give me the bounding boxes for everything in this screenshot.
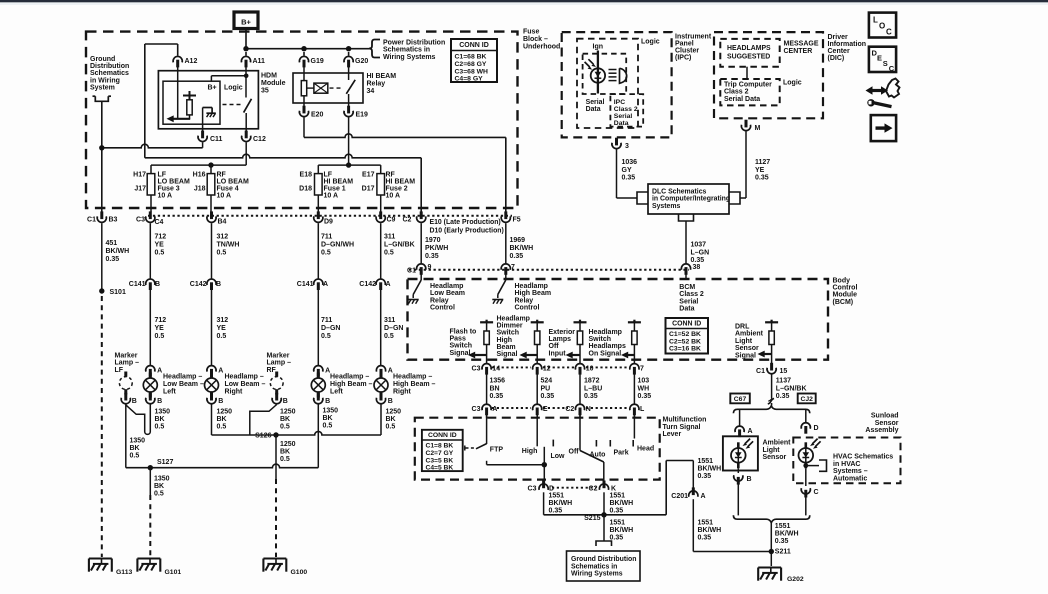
svg-text:0.5: 0.5 [321, 333, 331, 340]
svg-text:1137: 1137 [776, 378, 791, 385]
svg-text:Schematics: Schematics [90, 70, 129, 77]
svg-text:C3: C3 [472, 366, 481, 373]
svg-text:Light: Light [735, 338, 753, 345]
svg-text:Sunload: Sunload [871, 413, 899, 420]
svg-text:Head: Head [637, 446, 654, 453]
svg-text:Park: Park [614, 450, 629, 457]
svg-text:YE: YE [755, 167, 765, 174]
svg-text:Lever: Lever [663, 431, 682, 438]
svg-text:YE: YE [217, 325, 227, 332]
svg-text:0.35: 0.35 [549, 507, 563, 514]
svg-text:Headlamp –: Headlamp – [225, 374, 264, 381]
svg-text:D18: D18 [299, 186, 312, 193]
svg-text:A: A [748, 428, 753, 435]
svg-text:G202: G202 [787, 576, 804, 583]
svg-text:B: B [132, 398, 137, 405]
svg-text:HI BEAM: HI BEAM [367, 73, 397, 80]
svg-text:B+: B+ [208, 85, 217, 92]
svg-text:GY: GY [622, 167, 632, 174]
svg-text:Systems: Systems [652, 203, 681, 210]
svg-text:Serial Data: Serial Data [724, 96, 760, 103]
svg-text:Switch: Switch [497, 330, 520, 337]
svg-text:0.5: 0.5 [217, 333, 227, 340]
svg-text:C4=8 GY: C4=8 GY [455, 76, 484, 83]
svg-text:1350: 1350 [155, 409, 171, 416]
svg-text:Headlamp –: Headlamp – [163, 374, 202, 381]
svg-text:C9: C9 [387, 217, 396, 224]
svg-text:A: A [492, 406, 497, 413]
svg-text:C2=52 BK: C2=52 BK [669, 338, 701, 345]
svg-text:B: B [388, 398, 393, 405]
svg-text:S127: S127 [157, 459, 173, 466]
svg-text:CJ2: CJ2 [800, 396, 813, 403]
svg-text:1036: 1036 [622, 159, 638, 166]
svg-text:Right: Right [225, 388, 244, 395]
svg-text:J17: J17 [134, 186, 146, 193]
svg-text:Class 2: Class 2 [614, 106, 638, 113]
svg-text:451: 451 [106, 240, 118, 247]
svg-text:Dimmer: Dimmer [497, 323, 523, 330]
svg-text:Sensor: Sensor [763, 454, 787, 461]
svg-text:0.5: 0.5 [384, 333, 394, 340]
svg-text:Off: Off [549, 343, 560, 350]
svg-text:M: M [755, 125, 761, 132]
svg-text:Information: Information [828, 41, 867, 48]
svg-text:SUGGESTED: SUGGESTED [727, 54, 770, 61]
svg-text:C3=5 BK: C3=5 BK [426, 457, 454, 464]
svg-text:0.35: 0.35 [775, 538, 789, 545]
svg-text:Left: Left [163, 388, 177, 395]
svg-text:C141: C141 [129, 281, 146, 288]
svg-text:A: A [218, 367, 223, 374]
svg-text:1250: 1250 [217, 409, 233, 416]
svg-text:E17: E17 [362, 172, 375, 179]
svg-text:A11: A11 [253, 58, 266, 65]
svg-text:BK: BK [154, 483, 164, 490]
svg-text:1969: 1969 [510, 237, 526, 244]
svg-text:C4: C4 [155, 219, 164, 226]
svg-text:Logic: Logic [224, 85, 243, 92]
svg-text:Relay: Relay [367, 80, 386, 87]
svg-text:Beam: Beam [497, 344, 516, 351]
svg-text:0.35: 0.35 [698, 473, 712, 480]
svg-text:0.5: 0.5 [386, 424, 396, 431]
svg-text:Lamps: Lamps [549, 336, 572, 343]
svg-text:DLC Schematics: DLC Schematics [652, 189, 707, 196]
svg-text:IPC: IPC [614, 99, 625, 106]
svg-text:B: B [218, 398, 223, 405]
svg-text:Lamp –: Lamp – [267, 360, 292, 367]
svg-text:Wiring Systems: Wiring Systems [571, 571, 623, 578]
svg-text:C142: C142 [359, 281, 376, 288]
svg-text:Headlamp –: Headlamp – [393, 374, 432, 381]
svg-text:WH: WH [638, 385, 650, 392]
svg-text:0.35: 0.35 [622, 175, 636, 182]
svg-text:Assembly: Assembly [865, 427, 898, 434]
svg-text:3: 3 [625, 143, 629, 150]
svg-text:0.5: 0.5 [321, 250, 331, 257]
svg-text:L: L [640, 406, 645, 413]
svg-text:Ambient: Ambient [763, 440, 792, 447]
svg-text:Data: Data [614, 120, 629, 127]
svg-text:High: High [522, 448, 538, 455]
svg-text:Marker: Marker [115, 353, 138, 360]
svg-text:C1=68 BK: C1=68 BK [455, 54, 487, 61]
svg-text:DRL: DRL [735, 324, 750, 331]
svg-text:BK/WH: BK/WH [698, 466, 722, 473]
svg-text:A: A [157, 367, 162, 374]
svg-text:0.5: 0.5 [154, 491, 164, 498]
svg-text:711: 711 [321, 234, 332, 241]
svg-text:311: 311 [384, 317, 395, 324]
svg-text:1551: 1551 [610, 520, 626, 527]
svg-text:CONN ID: CONN ID [459, 42, 489, 49]
svg-text:Relay: Relay [515, 297, 534, 304]
svg-text:1350: 1350 [154, 476, 170, 483]
svg-text:Data: Data [679, 306, 694, 313]
svg-text:Marker: Marker [267, 353, 290, 360]
svg-text:E10 (Late Production): E10 (Late Production) [430, 219, 501, 226]
svg-text:CONN ID: CONN ID [672, 321, 701, 328]
svg-text:1350: 1350 [323, 408, 339, 415]
svg-text:K: K [611, 486, 616, 493]
svg-text:S101: S101 [110, 289, 126, 296]
svg-text:C3=16 BK: C3=16 BK [669, 346, 701, 353]
svg-text:RF: RF [386, 172, 396, 179]
svg-text:Turn Signal: Turn Signal [663, 424, 701, 431]
svg-text:Class 2: Class 2 [724, 89, 749, 96]
svg-text:Ambient: Ambient [735, 331, 764, 338]
svg-text:1551: 1551 [698, 458, 714, 465]
svg-text:CENTER: CENTER [784, 48, 813, 55]
svg-text:711: 711 [321, 317, 332, 324]
svg-text:10 A: 10 A [386, 193, 401, 200]
svg-text:H17: H17 [133, 172, 146, 179]
svg-text:D–GN: D–GN [384, 325, 403, 332]
svg-text:C: C [814, 489, 819, 496]
svg-text:Lamp –: Lamp – [115, 360, 140, 367]
svg-text:PU: PU [541, 385, 551, 392]
svg-text:C2: C2 [565, 406, 574, 413]
svg-text:Data: Data [586, 106, 601, 113]
svg-text:Headlamp: Headlamp [515, 283, 548, 290]
svg-text:B: B [157, 398, 162, 405]
svg-text:in Computer/Integrating: in Computer/Integrating [652, 196, 730, 203]
svg-text:0.35: 0.35 [638, 393, 652, 400]
svg-text:Class 2: Class 2 [679, 291, 704, 298]
svg-text:S: S [883, 59, 888, 68]
svg-text:BK: BK [155, 416, 165, 423]
svg-text:D9: D9 [324, 219, 333, 226]
svg-text:1551: 1551 [698, 520, 714, 527]
svg-text:L–BU: L–BU [584, 385, 602, 392]
svg-text:1350: 1350 [130, 438, 146, 445]
svg-text:BK/WH: BK/WH [698, 527, 722, 534]
svg-text:0.5: 0.5 [155, 424, 165, 431]
svg-text:G113: G113 [116, 569, 132, 576]
svg-text:LF: LF [324, 172, 333, 179]
svg-text:312: 312 [217, 317, 229, 324]
svg-text:Multifunction: Multifunction [663, 417, 707, 424]
svg-text:1127: 1127 [755, 159, 770, 166]
svg-text:1356: 1356 [490, 378, 506, 385]
svg-text:10 A: 10 A [158, 193, 173, 200]
svg-text:Headlamps: Headlamps [589, 343, 626, 350]
svg-text:Body: Body [833, 278, 851, 285]
svg-text:Schematics in: Schematics in [383, 47, 430, 54]
svg-text:HEADLAMPS: HEADLAMPS [727, 45, 771, 52]
svg-text:1970: 1970 [425, 237, 441, 244]
svg-text:Module: Module [261, 80, 286, 87]
svg-text:H16: H16 [193, 172, 206, 179]
svg-text:L–GN: L–GN [691, 249, 710, 256]
svg-text:BK/WH: BK/WH [549, 500, 573, 507]
svg-text:0.35: 0.35 [490, 393, 504, 400]
svg-text:Auto: Auto [590, 452, 606, 459]
svg-text:BK/WH: BK/WH [510, 245, 534, 252]
svg-text:Instrument: Instrument [675, 34, 712, 41]
svg-text:Serial: Serial [586, 99, 605, 106]
svg-text:G100: G100 [291, 569, 308, 576]
svg-text:Low Beam –: Low Beam – [163, 381, 204, 388]
svg-text:B3: B3 [109, 217, 118, 224]
svg-text:1250: 1250 [280, 409, 296, 416]
svg-text:Power Distribution: Power Distribution [383, 40, 445, 47]
svg-text:Fuse 2: Fuse 2 [386, 186, 408, 193]
svg-text:G101: G101 [165, 569, 182, 576]
svg-text:BK/WH: BK/WH [610, 500, 634, 507]
svg-text:Fuse 3: Fuse 3 [158, 186, 180, 193]
svg-text:High: High [497, 337, 513, 344]
svg-text:0.5: 0.5 [280, 424, 290, 431]
svg-text:C1=52 BK: C1=52 BK [669, 331, 701, 338]
svg-text:Control: Control [833, 285, 858, 292]
svg-text:C3: C3 [136, 217, 145, 224]
svg-text:Light: Light [763, 447, 781, 454]
svg-text:D: D [814, 425, 819, 432]
svg-text:1250: 1250 [280, 441, 296, 448]
svg-text:N: N [586, 406, 591, 413]
svg-text:Systems –: Systems – [833, 468, 868, 475]
svg-text:BK/WH: BK/WH [106, 248, 130, 255]
svg-text:Low Beam: Low Beam [430, 290, 465, 297]
svg-text:34: 34 [367, 88, 375, 95]
svg-text:Logic: Logic [783, 80, 802, 87]
svg-text:Serial: Serial [679, 298, 698, 305]
svg-text:1551: 1551 [549, 493, 565, 500]
svg-text:0.35: 0.35 [610, 507, 624, 514]
svg-text:FTP: FTP [490, 447, 504, 454]
svg-text:L: L [873, 16, 878, 25]
svg-text:C11: C11 [210, 136, 223, 143]
svg-text:Flash to: Flash to [450, 329, 477, 336]
svg-text:C1=8 BK: C1=8 BK [426, 443, 454, 450]
svg-text:Ground: Ground [90, 56, 115, 63]
svg-text:1250: 1250 [386, 409, 402, 416]
svg-text:311: 311 [384, 234, 395, 241]
svg-text:0.35: 0.35 [755, 175, 769, 182]
svg-text:0.5: 0.5 [384, 250, 394, 257]
svg-text:E19: E19 [356, 112, 369, 119]
svg-text:YE: YE [155, 242, 165, 249]
svg-text:C12: C12 [253, 136, 266, 143]
svg-text:B: B [283, 398, 288, 405]
svg-text:LF: LF [158, 172, 167, 179]
svg-text:38: 38 [693, 264, 701, 271]
svg-text:A: A [323, 281, 328, 288]
svg-text:F5: F5 [513, 217, 521, 224]
svg-text:Fuse: Fuse [523, 29, 539, 36]
svg-text:System: System [90, 84, 115, 91]
svg-text:(BCM): (BCM) [833, 299, 854, 306]
svg-text:CONN ID: CONN ID [428, 432, 457, 439]
svg-text:C141: C141 [297, 281, 314, 288]
svg-text:7: 7 [640, 366, 644, 373]
svg-text:Input: Input [549, 350, 567, 357]
svg-text:O: O [879, 22, 885, 31]
svg-text:G19: G19 [311, 58, 324, 65]
svg-text:HVAC Schematics: HVAC Schematics [833, 454, 893, 461]
svg-text:PK/WH: PK/WH [425, 245, 448, 252]
svg-text:BK: BK [280, 449, 290, 456]
svg-text:C3=68 WH: C3=68 WH [455, 68, 489, 75]
svg-text:Trip Computer: Trip Computer [724, 82, 772, 89]
svg-text:Center: Center [828, 48, 850, 55]
svg-text:12: 12 [543, 366, 551, 373]
svg-text:14: 14 [492, 366, 500, 373]
svg-text:B: B [325, 398, 330, 405]
svg-text:C4=5 BK: C4=5 BK [426, 465, 454, 472]
svg-text:0.35: 0.35 [510, 253, 524, 260]
svg-text:Sensor: Sensor [875, 420, 899, 427]
svg-text:L–GN/BK: L–GN/BK [384, 242, 415, 249]
svg-text:0.5: 0.5 [155, 250, 165, 257]
svg-text:1872: 1872 [584, 378, 600, 385]
svg-text:C142: C142 [190, 281, 207, 288]
svg-text:BK: BK [386, 416, 396, 423]
svg-text:(DIC): (DIC) [828, 55, 845, 62]
svg-text:B+: B+ [241, 18, 251, 27]
svg-text:RF: RF [267, 367, 277, 374]
svg-text:Low Beam –: Low Beam – [225, 381, 266, 388]
svg-text:Headlamp: Headlamp [430, 283, 463, 290]
svg-text:BN: BN [490, 385, 500, 392]
svg-text:1037: 1037 [691, 242, 707, 249]
svg-text:RF: RF [217, 172, 227, 179]
svg-text:S211: S211 [775, 549, 791, 556]
svg-text:E18: E18 [300, 172, 313, 179]
svg-text:0.35: 0.35 [584, 393, 598, 400]
svg-text:Off: Off [569, 449, 580, 456]
svg-text:Control: Control [515, 305, 540, 312]
svg-text:MESSAGE: MESSAGE [784, 41, 819, 48]
svg-text:Schematics in: Schematics in [571, 563, 617, 570]
svg-text:B: B [747, 476, 752, 483]
svg-text:High Beam –: High Beam – [330, 381, 373, 388]
svg-text:Module: Module [833, 292, 858, 299]
svg-text:712: 712 [155, 234, 167, 241]
svg-text:712: 712 [155, 317, 167, 324]
svg-text:C2: C2 [403, 217, 412, 224]
svg-text:HI BEAM: HI BEAM [324, 179, 354, 186]
svg-text:in HVAC: in HVAC [833, 461, 860, 468]
svg-text:Ign: Ign [593, 44, 604, 51]
svg-text:10: 10 [586, 366, 594, 373]
svg-text:B: B [216, 281, 221, 288]
svg-text:7: 7 [511, 264, 515, 271]
svg-text:C1: C1 [407, 268, 416, 275]
svg-text:Automatic: Automatic [833, 475, 867, 482]
svg-text:Switch: Switch [450, 343, 473, 350]
svg-text:J18: J18 [194, 186, 206, 193]
svg-text:Underhood: Underhood [523, 43, 560, 50]
svg-text:35: 35 [261, 87, 269, 94]
svg-text:D10 (Early Production): D10 (Early Production) [430, 228, 504, 235]
svg-text:C201: C201 [671, 493, 688, 500]
svg-text:Left: Left [330, 388, 344, 395]
svg-text:A12: A12 [185, 58, 198, 65]
svg-text:HDM: HDM [261, 73, 277, 80]
svg-text:0.5: 0.5 [155, 333, 165, 340]
svg-text:A: A [701, 493, 706, 500]
svg-text:Block –: Block – [523, 36, 548, 43]
svg-text:Pass: Pass [450, 336, 466, 343]
svg-text:Switch: Switch [589, 336, 612, 343]
svg-text:Fuse 4: Fuse 4 [217, 186, 239, 193]
svg-text:1551: 1551 [775, 523, 791, 530]
svg-text:E20: E20 [311, 112, 324, 119]
svg-text:C3: C3 [472, 406, 481, 413]
svg-text:C: C [886, 28, 892, 37]
svg-text:9: 9 [428, 264, 432, 271]
svg-text:C1: C1 [87, 217, 96, 224]
svg-text:Signal: Signal [497, 351, 518, 358]
svg-text:0.35: 0.35 [698, 535, 712, 542]
svg-text:Cluster: Cluster [675, 48, 699, 55]
svg-text:B: B [155, 281, 160, 288]
svg-text:D: D [549, 486, 554, 493]
svg-text:C2=7 GY: C2=7 GY [426, 450, 454, 457]
svg-text:S126: S126 [255, 432, 271, 439]
svg-text:524: 524 [541, 378, 553, 385]
svg-text:High Beam: High Beam [515, 290, 552, 297]
svg-text:312: 312 [217, 234, 229, 241]
svg-text:1551: 1551 [610, 493, 626, 500]
svg-text:in Wiring: in Wiring [90, 77, 120, 84]
svg-text:0.5: 0.5 [130, 453, 140, 460]
svg-text:0.5: 0.5 [280, 456, 290, 463]
svg-text:Wiring Systems: Wiring Systems [383, 54, 436, 61]
svg-text:0.35: 0.35 [106, 256, 120, 263]
svg-text:Control: Control [430, 305, 455, 312]
svg-text:Panel: Panel [675, 41, 694, 48]
svg-text:BK: BK [130, 445, 140, 452]
svg-text:Signal: Signal [450, 350, 471, 357]
svg-text:S215: S215 [584, 515, 600, 522]
svg-text:On Signal: On Signal [589, 350, 622, 357]
svg-text:Fuse 1: Fuse 1 [324, 186, 346, 193]
svg-text:0.35: 0.35 [425, 253, 439, 260]
svg-text:0.5: 0.5 [217, 424, 227, 431]
svg-text:Logic: Logic [641, 39, 660, 46]
svg-text:High Beam –: High Beam – [393, 381, 436, 388]
svg-text:D–GN: D–GN [321, 325, 340, 332]
svg-text:C2: C2 [589, 486, 598, 493]
svg-text:Serial: Serial [614, 113, 633, 120]
svg-text:C2=68 GY: C2=68 GY [455, 61, 487, 68]
svg-text:D–GN/WH: D–GN/WH [321, 242, 354, 249]
svg-text:Headlamp: Headlamp [497, 316, 530, 323]
